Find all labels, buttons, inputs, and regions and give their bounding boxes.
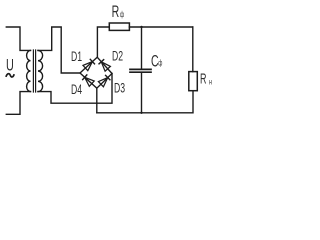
svg-text:U: U: [6, 56, 14, 74]
svg-text:C: C: [151, 51, 159, 70]
svg-text:D3: D3: [114, 80, 125, 96]
transformer T1 core: [33, 50, 35, 92]
wire: right branch down to Rn: [192, 27, 194, 72]
svg-text:D1: D1: [71, 49, 82, 65]
junction dot: Cf bottom node: [140, 112, 142, 114]
resistor Rn body: [189, 72, 198, 91]
wire: bottom rail: [97, 112, 193, 114]
diode D3 (right-bottom side, cathode toward right node): [98, 75, 110, 87]
diode D4 (left-bottom side, cathode toward left node): [82, 74, 94, 86]
label ~ (AC sign): [6, 74, 14, 77]
svg-text:ф: ф: [158, 59, 162, 67]
svg-text:R: R: [200, 70, 207, 87]
svg-text:D2: D2: [112, 49, 123, 65]
diode D2 (right-top side, cathode toward top node): [99, 59, 111, 71]
wire: AC input bottom lead: [6, 92, 30, 115]
wire: secondary bottom to bridge right node: [38, 74, 112, 104]
wire: secondary top to bridge left node: [38, 27, 80, 73]
svg-text:R: R: [112, 1, 120, 20]
svg-text:ф: ф: [120, 11, 124, 19]
capacitor Cf plates: [130, 69, 151, 72]
capacitor Cf top lead: [141, 27, 143, 68]
svg-text:н: н: [209, 79, 212, 87]
diode D1 (left-top side, cathode toward top node): [83, 59, 95, 71]
diode bridge diamond sides: [80, 57, 112, 88]
svg-text:D4: D4: [71, 82, 82, 98]
wire: Rf to right branch top rail: [129, 26, 192, 28]
junction dot: Cf top node: [140, 26, 142, 28]
wire: Rn bottom to rail: [192, 91, 194, 113]
transformer T1 primary winding: [27, 50, 31, 91]
wire: bridge bottom node to bottom rail: [96, 88, 98, 113]
wire: bridge top node to Rf: [97, 27, 109, 57]
capacitor Cf bottom lead: [141, 73, 143, 113]
transformer T1 secondary winding: [38, 50, 43, 91]
resistor Rf body: [109, 23, 129, 30]
wire: AC input top lead: [6, 27, 30, 50]
